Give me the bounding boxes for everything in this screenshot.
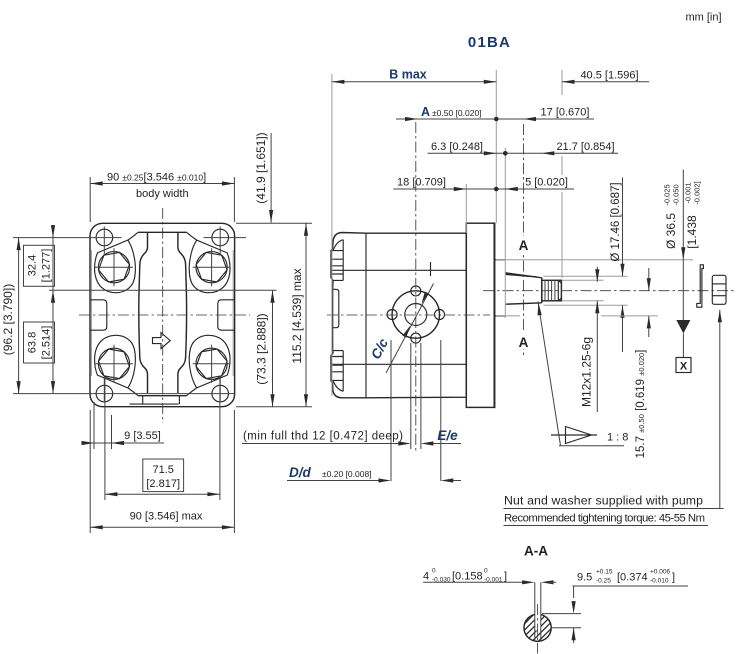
mounting flange plate (466, 223, 494, 407)
dim 71.5 boxed (105, 493, 220, 495)
rear cover rib block top (331, 240, 343, 281)
hex screw top-right (193, 248, 231, 286)
bearing boss circle (392, 291, 439, 338)
rear cover rib block bottom (331, 351, 343, 392)
svg-text:-0.25: -0.25 (596, 578, 611, 585)
svg-text:body width: body width (136, 188, 189, 200)
bolt hole top-right (212, 229, 229, 246)
svg-text:[2.817]: [2.817] (146, 478, 180, 490)
bearing vertical centerline (415, 122, 417, 452)
side view horizontal centerline (327, 314, 490, 316)
ext lines bottom (90, 377, 234, 533)
dim B max (332, 81, 496, 83)
svg-text:[1.277]: [1.277] (40, 249, 52, 283)
ext line flange bottom right (236, 406, 312, 408)
svg-text:-0.010: -0.010 (650, 578, 669, 585)
shaft boss (494, 260, 505, 316)
front view vertical centerline (162, 208, 164, 423)
datum triangle (676, 320, 690, 334)
svg-text:E/e: E/e (437, 428, 458, 443)
port notch right (218, 300, 235, 330)
corner circle vertical centerlines (104, 227, 220, 402)
gusset connector bottom-right (187, 388, 197, 396)
svg-text:Ø 17.46 [0.687]: Ø 17.46 [0.687] (610, 182, 622, 261)
svg-text:9 [3.55]: 9 [3.55] (124, 430, 161, 442)
svg-text:6.3 [0.248]: 6.3 [0.248] (431, 141, 483, 153)
svg-text:Ø 36.5: Ø 36.5 (664, 213, 678, 249)
dim A ±0.50 (396, 118, 594, 120)
gray side plate band right (232, 250, 234, 376)
C/c leader diagonal (386, 284, 434, 374)
gray side plate band left (90, 250, 92, 376)
taper leader line (538, 302, 561, 446)
thread chamfer (558, 280, 561, 301)
svg-text:-0.001: -0.001 (684, 182, 693, 203)
tapered shaft (505, 273, 542, 304)
extension line through bottom bolt holes (13, 393, 235, 395)
extension line mid (32.4 level) (49, 289, 277, 291)
C/c arrowheads (420, 292, 429, 305)
svg-text:A: A (421, 105, 430, 119)
dim Ø36.5 with datum (682, 170, 684, 321)
label 32.4 [1.277] boxed (24, 245, 55, 286)
svg-text:(73.3 [2.888]): (73.3 [2.888]) (255, 313, 269, 384)
dim 90 max (90, 526, 234, 528)
dim 9.5 (572, 585, 688, 587)
thread hatch lines (545, 280, 555, 301)
svg-text:mm [in]: mm [in] (685, 12, 721, 24)
svg-text:A: A (519, 238, 529, 253)
min full thd note and E/e dim line (242, 443, 399, 445)
svg-text:+0.15: +0.15 (596, 569, 613, 576)
port hole top (411, 286, 421, 296)
svg-text:17 [0.670]: 17 [0.670] (541, 107, 590, 119)
gusset connector top-left (128, 232, 138, 240)
key flat chords (535, 582, 541, 641)
svg-text:Nut and washer supplied with p: Nut and washer supplied with pump (504, 494, 703, 508)
keyway slot white (535, 613, 541, 631)
dim 6.3 / 21.7 (428, 152, 619, 154)
bolt hole bottom-left (96, 385, 113, 402)
ext lines (89, 177, 91, 222)
svg-text:63.8: 63.8 (26, 332, 38, 353)
svg-text:01BA: 01BA (468, 34, 511, 51)
svg-text:-0.025: -0.025 (663, 184, 672, 205)
dim 32.4 / 63.8 line (52, 225, 54, 394)
flange outline (90, 223, 235, 406)
gusset connector top-right (187, 232, 197, 240)
body/cover joint (365, 233, 367, 398)
svg-text:18 [0.709]: 18 [0.709] (397, 177, 446, 189)
D/d dim line (287, 480, 379, 482)
shaft centerline (483, 290, 735, 292)
svg-text:A: A (519, 335, 529, 350)
svg-text:]: ] (672, 572, 675, 584)
taper symbol (551, 427, 597, 444)
shoulder ext line right (601, 315, 658, 317)
dim 15.7 (648, 268, 650, 337)
front view horizontal centerline (79, 314, 250, 316)
svg-text:0: 0 (484, 568, 488, 575)
svg-text:±0.20 [0.008]: ±0.20 [0.008] (322, 469, 372, 479)
dim M12x1.25-6g (596, 267, 598, 412)
svg-text:(41.9 [1.651]): (41.9 [1.651]) (254, 132, 268, 203)
svg-text:71.5: 71.5 (152, 464, 173, 476)
nut (712, 275, 726, 304)
bottom plateau (138, 395, 187, 397)
svg-text:]: ] (504, 571, 507, 583)
ext line body joint (465, 184, 467, 233)
pump body (366, 223, 466, 398)
svg-text:B max: B max (389, 68, 427, 82)
ext line flange face (495, 70, 497, 223)
top plateau (138, 231, 187, 233)
port notch left (90, 300, 107, 330)
svg-text:90 ±0.25[3.546 ±0.010]: 90 ±0.25[3.546 ±0.010] (107, 172, 206, 184)
pocket bottom-left (95, 335, 136, 388)
nut leader line (719, 310, 721, 509)
svg-text:[0.158: [0.158 (452, 571, 483, 583)
dim 18 / 5 (393, 188, 574, 190)
dim line 90 body width (90, 183, 234, 185)
dim 40.5 (562, 81, 649, 83)
thread top/bottom ext lines (562, 280, 604, 301)
flow direction arrow (153, 333, 171, 349)
ext line shaft end (561, 70, 563, 278)
label 63.8 [2.514] boxed (24, 322, 55, 363)
svg-text:40.5 [1.596]: 40.5 [1.596] (580, 70, 638, 82)
svg-text:D/d: D/d (289, 465, 312, 480)
svg-text:Recommended tightening torque:: Recommended tightening torque: 45-55 Nm (504, 513, 705, 525)
taper dia ext lines (544, 276, 628, 305)
bolt hole top-left (96, 229, 113, 246)
svg-text:[0.374: [0.374 (617, 572, 648, 584)
hex screw bottom-right (193, 345, 231, 383)
svg-text:115.2 [4.539] max: 115.2 [4.539] max (290, 268, 304, 363)
svg-text:21.7 [0.854]: 21.7 [0.854] (556, 141, 614, 153)
rear cover mid tab (333, 289, 339, 327)
svg-text:15.7 ±0.50 [0.619 ±0.020]: 15.7 ±0.50 [0.619 ±0.020] (635, 350, 647, 459)
svg-text:±0.50 [0.020]: ±0.50 [0.020] (432, 108, 482, 118)
svg-text:+0.006: +0.006 (650, 569, 670, 576)
svg-text:0: 0 (432, 568, 436, 575)
svg-text:(96.2 [3.790]): (96.2 [3.790]) (1, 284, 15, 355)
dim (41.9) (270, 133, 272, 223)
svg-text:(min full thd 12 [0.472] deep): (min full thd 12 [0.472] deep) (243, 431, 403, 443)
svg-text:X: X (680, 361, 688, 373)
pocket top-left (95, 240, 136, 293)
svg-text:32.4: 32.4 (26, 255, 38, 276)
svg-text:-0.002]: -0.002] (693, 181, 702, 204)
gusset connector bottom-left (128, 388, 138, 396)
rear cover outline (331, 233, 366, 398)
svg-text:90 [3.546] max: 90 [3.546] max (130, 511, 203, 523)
port hole bottom (411, 333, 421, 343)
svg-text:9.5: 9.5 (577, 572, 592, 584)
svg-text:[1.438: [1.438 (685, 215, 699, 249)
bottle body left side (139, 232, 148, 393)
taper shelf line (559, 445, 624, 447)
port hole left (387, 310, 397, 320)
svg-text:A-A: A-A (524, 544, 548, 559)
dim 4 flat width (423, 581, 526, 583)
section vertical centerline (537, 604, 539, 654)
dim Ø17.46 (622, 178, 624, 353)
shoulder line 15.7 level (496, 315, 520, 317)
ext line boss face (504, 148, 506, 318)
svg-text:[2.514]: [2.514] (40, 326, 52, 360)
dim 9 (82, 442, 164, 444)
port hole right (435, 310, 445, 320)
bottle body right side (178, 232, 187, 393)
section line A-A (523, 124, 525, 355)
bolt hole bottom-right (212, 385, 229, 402)
washer (697, 265, 704, 307)
bottom step (130, 396, 180, 404)
dim (73.3) (272, 290, 274, 407)
section label A bottom (517, 333, 530, 349)
gear line upper (332, 269, 467, 271)
ext lines below bearing circle (391, 340, 441, 481)
dim 115.2 max (305, 223, 307, 407)
boss top extension to right (496, 259, 693, 261)
svg-text:-0.030: -0.030 (432, 577, 451, 584)
svg-text:5 [0.020]: 5 [0.020] (525, 177, 568, 189)
hex screw bottom-left (95, 345, 133, 383)
section label A top (517, 236, 530, 252)
pocket bottom-right (189, 335, 230, 388)
svg-text:M12x1.25-6g: M12x1.25-6g (580, 337, 594, 407)
datum stem and X box (682, 334, 684, 358)
flange face thick edge (493, 223, 495, 407)
mesh tick (430, 262, 432, 276)
bearing inner circle (405, 304, 427, 326)
section hatching (476, 607, 585, 647)
svg-text:-0.001: -0.001 (484, 577, 503, 584)
gear line lower (332, 363, 467, 365)
ext lines 9.5 (542, 614, 581, 628)
shaft section circle (524, 614, 551, 641)
svg-text:4: 4 (423, 571, 429, 583)
extension line through top bolt holes (13, 237, 246, 239)
svg-text:1 : 8: 1 : 8 (607, 432, 628, 444)
hex screw top-left (95, 248, 133, 286)
pocket top-right (189, 240, 230, 293)
ext line flange top right (236, 222, 312, 224)
dim (96.2) line (18, 238, 20, 394)
threaded end (542, 280, 562, 301)
ext line B max left (331, 74, 333, 396)
svg-text:-0.050: -0.050 (672, 184, 681, 205)
